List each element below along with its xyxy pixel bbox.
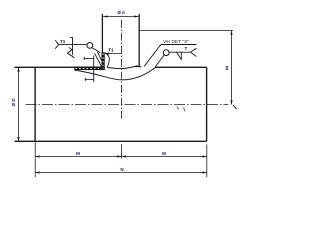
weld bead bulge right of branch wall [105, 53, 110, 68]
weld symbol right: reference line [169, 51, 191, 53]
lower thickness tick t [85, 78, 94, 81]
note Ver DET X with leader [144, 39, 196, 66]
svg-text:T1: T1 [108, 48, 114, 53]
reinforcement pad horizontal bar (section, solid) [74, 67, 104, 70]
saddle curve B (lower intersection curve) [75, 68, 156, 80]
weld symbol T1 left: small diagonal tick [69, 47, 73, 50]
dimension OD (main pipe diameter) [11, 67, 20, 141]
svg-text:Ver DET "X": Ver DET "X" [163, 39, 189, 45]
flat seat at branch right wall base [135, 66, 142, 68]
svg-text:T: T [185, 46, 188, 51]
weld groove diagonal 2 [97, 52, 104, 66]
weld symbol right: fillet triangle [177, 52, 182, 59]
upper thickness tick t1 [84, 57, 94, 60]
branch pipe left wall [101, 14, 103, 53]
weld symbol T1 left: balloon circle [87, 43, 93, 49]
weld symbol T1 left: fillet triangle [68, 49, 75, 57]
thickness extension line through pad [93, 56, 95, 82]
weld groove diagonal 1 [95, 53, 102, 67]
weld symbol right (DET X): balloon circle [163, 50, 169, 56]
svg-text:Ø d: Ø d [117, 10, 125, 15]
branch pipe right wall [138, 14, 140, 67]
svg-text:M: M [225, 66, 230, 70]
right vertical dimension M [225, 31, 237, 109]
dimension Od (branch diameter) [103, 10, 138, 18]
saddle curve A (weld toe, upper) [107, 66, 138, 69]
extension line bottom left [34, 141, 36, 177]
weld symbol T1 left: vertical flag with top tick [70, 37, 73, 55]
weld label T1 right of branch: leader line [105, 48, 121, 55]
branch pipe centerline [121, 20, 123, 121]
main pipe centerline [26, 104, 229, 106]
small tick marks below centerline [177, 107, 185, 112]
weld symbol T1 left: tail fork [55, 40, 59, 49]
weld vertical bar at branch wall (section, solid) [102, 52, 105, 70]
extension line bottom center [121, 144, 123, 159]
weld symbol T1 left: reference line [59, 44, 87, 46]
svg-text:Ø D: Ø D [11, 98, 16, 106]
leader from balloon to weld [92, 48, 100, 53]
dimension M M (half lengths) [35, 151, 207, 157]
svg-text:M: M [76, 151, 80, 156]
extension line for right vertical dimension [139, 30, 234, 32]
extension line bottom right [206, 145, 208, 178]
svg-text:T1: T1 [60, 39, 66, 44]
weld symbol right: leader to junction [155, 55, 164, 67]
weld symbol right: tail fork [191, 48, 197, 56]
main pipe body outline [15, 67, 207, 141]
svg-text:M: M [162, 151, 166, 156]
dimension N (overall length) [35, 167, 207, 173]
